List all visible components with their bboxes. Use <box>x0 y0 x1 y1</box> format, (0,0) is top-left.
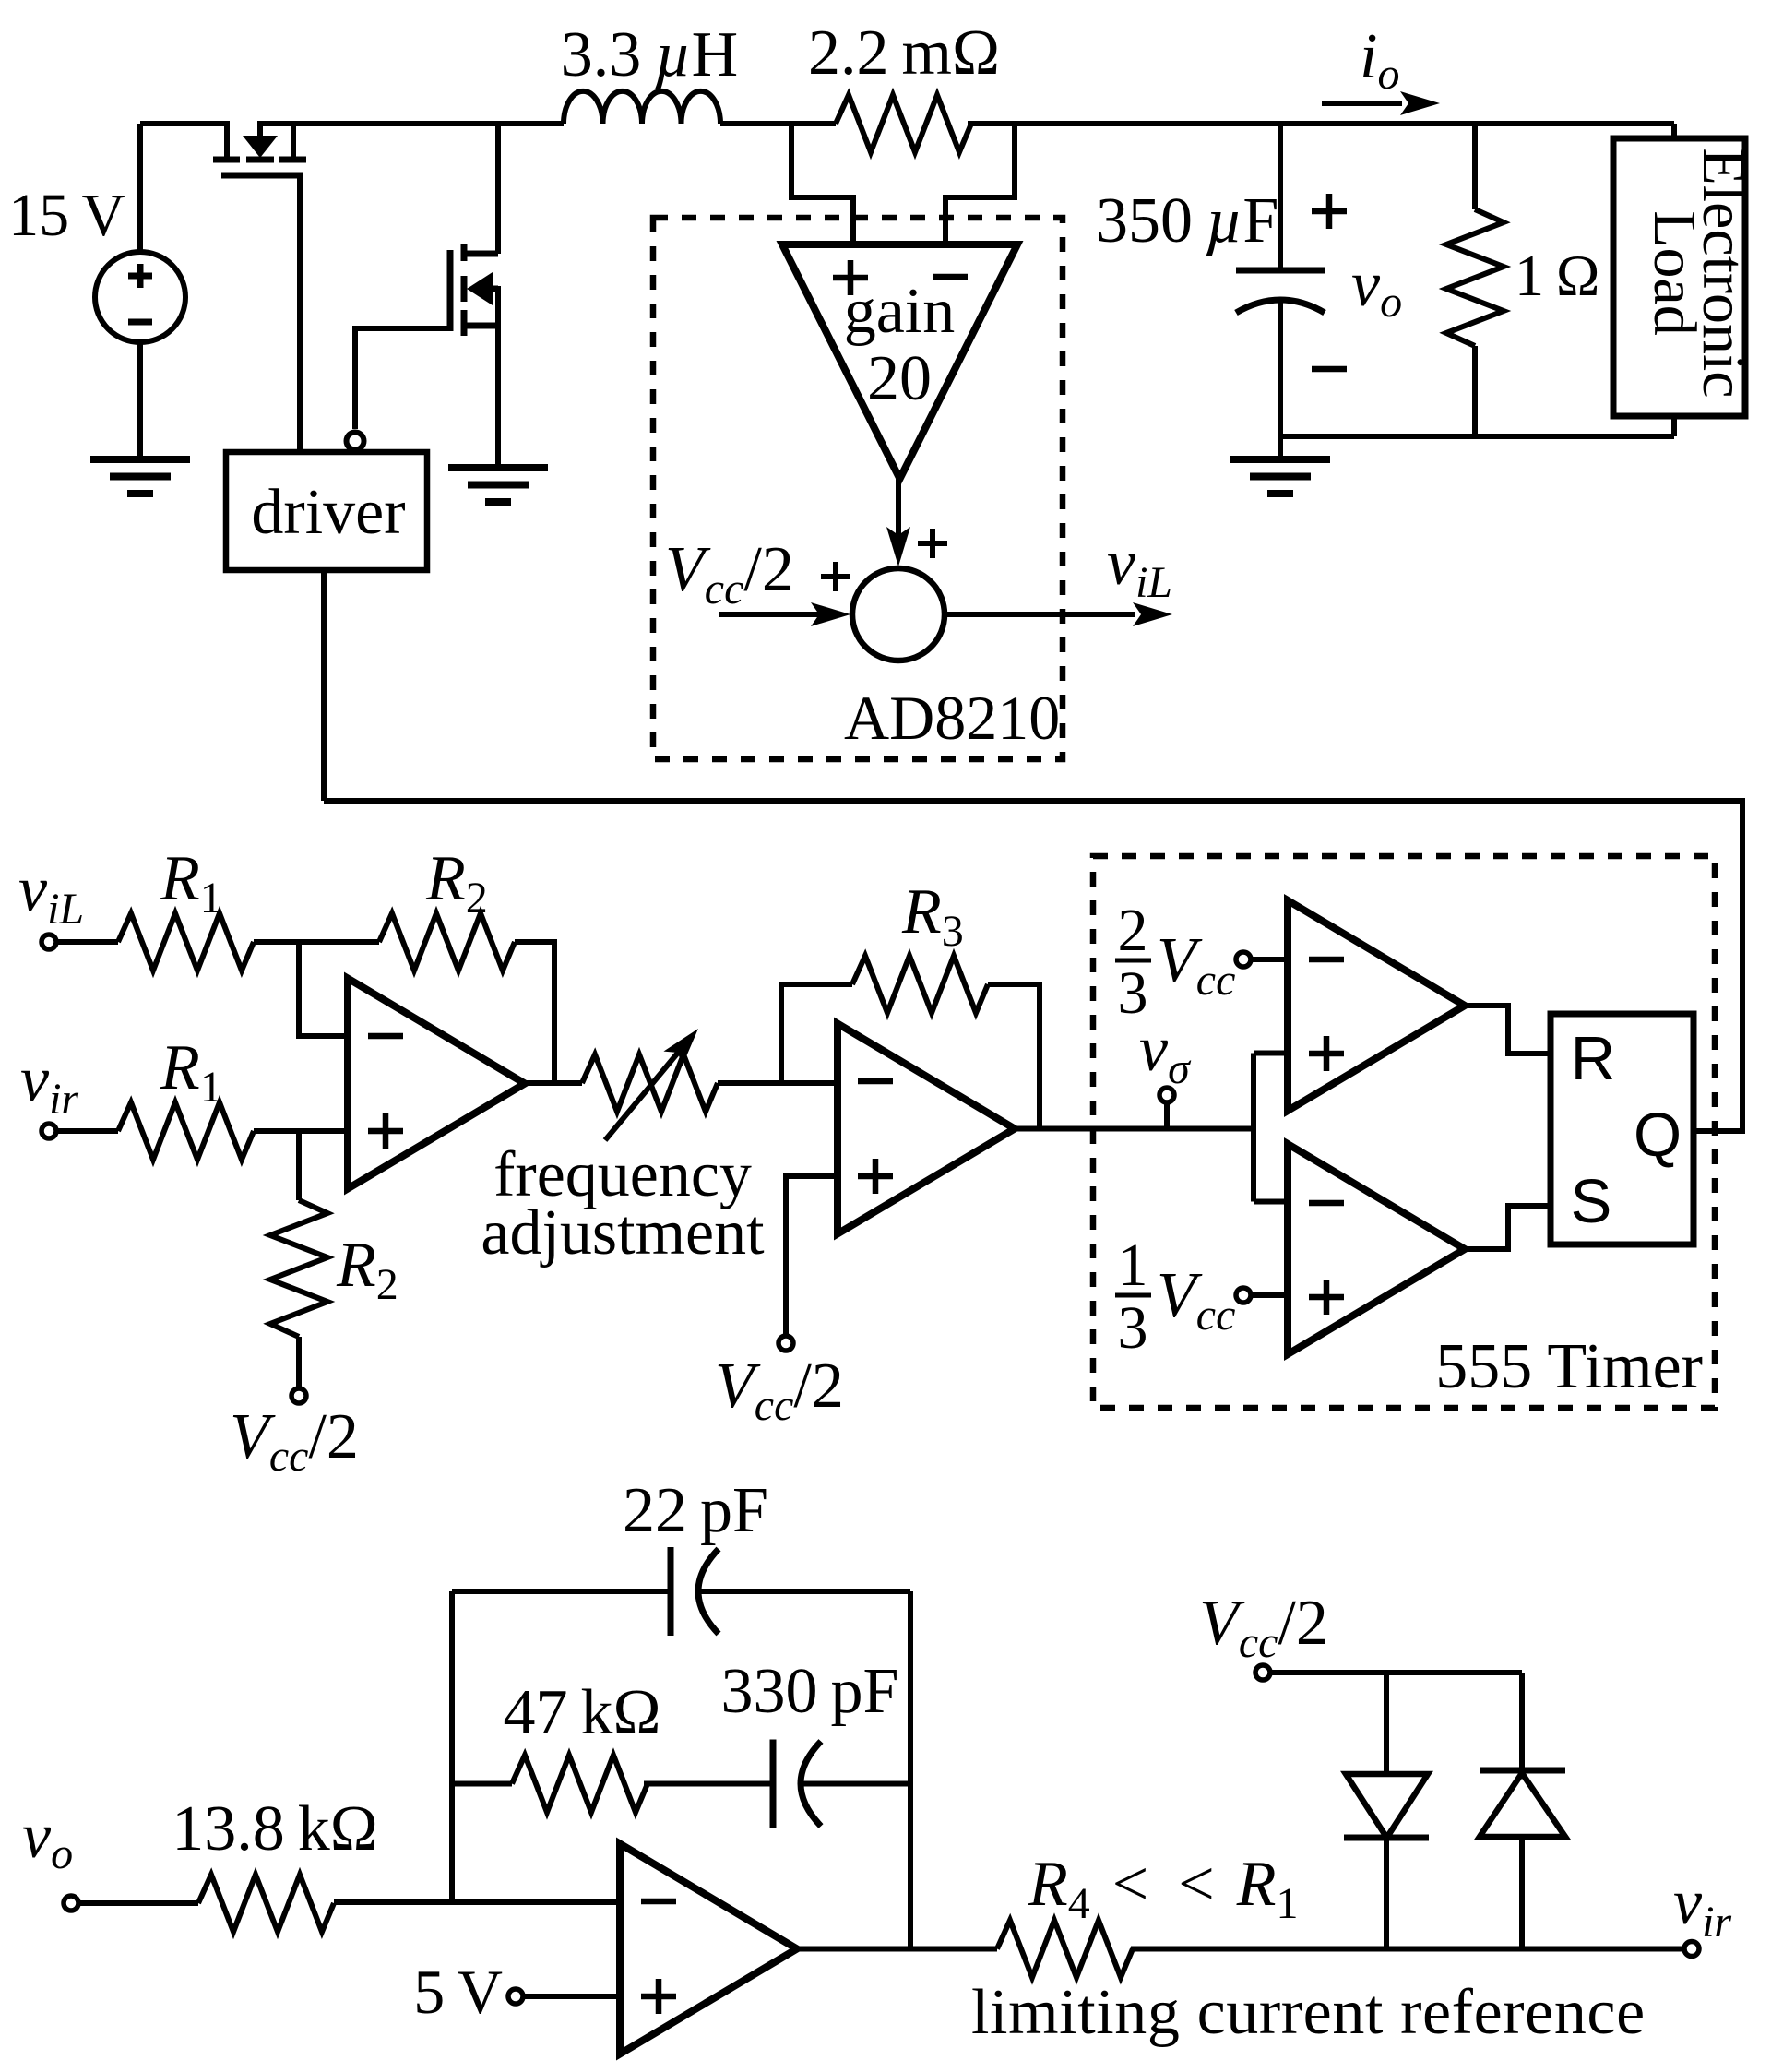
rheostat frequency adjustment <box>582 1021 718 1140</box>
ground at output <box>1230 436 1330 494</box>
wire V1 top to rail <box>137 124 143 252</box>
wire R3 to op3 output <box>988 984 1040 1128</box>
summing node circle <box>852 568 945 661</box>
label 2.2 mOhm <box>808 18 1000 89</box>
label - of U2 <box>368 1033 403 1040</box>
label Electronic (rotated) <box>1690 148 1757 398</box>
label gain <box>844 276 956 347</box>
label Vcc/2 clamp <box>1199 1588 1328 1667</box>
label 47 kOhm <box>503 1677 660 1748</box>
terminal v_ir output <box>1684 1942 1699 1957</box>
label v_iL terminal <box>18 854 84 934</box>
terminal v_iL <box>42 935 56 949</box>
label + of U5 <box>1309 1280 1344 1315</box>
label R2 (feedback) <box>425 843 488 923</box>
wire U1 output arrow into summer <box>886 479 910 566</box>
wire Q1 gate to driver <box>297 175 303 452</box>
label + input of U1 <box>833 260 868 295</box>
inductor L1 3.3uH <box>564 91 720 124</box>
wire bus to U5 minus <box>1254 1199 1288 1205</box>
label 350 uF <box>1096 185 1278 256</box>
wire top rail left segment <box>140 121 230 126</box>
label Vcc/2 for U3 <box>715 1351 844 1430</box>
label S input <box>1571 1167 1612 1236</box>
RS flip-flop box <box>1551 1014 1694 1244</box>
terminal v_ir (input) <box>42 1124 56 1138</box>
capacitor 22pF <box>671 1547 910 1636</box>
wire v_ir to R1b <box>56 1128 118 1134</box>
resistor R1 (top) <box>118 913 254 971</box>
label v_ir terminal <box>20 1044 78 1124</box>
wire V1 bottom to ground <box>137 342 143 459</box>
wire bottom rail <box>1280 434 1674 439</box>
label Load (rotated) <box>1641 210 1708 336</box>
resistor R2 feedback <box>379 913 515 971</box>
arrow i_o <box>1322 91 1440 115</box>
ground under Q2 source <box>448 468 548 502</box>
label + of v_o <box>1312 194 1347 229</box>
label - of U5 <box>1309 1200 1344 1207</box>
label 1/3 Vcc <box>1115 1232 1235 1362</box>
svg-text:13.8 kΩ: 13.8 kΩ <box>172 1793 378 1864</box>
amplifier U1 gain 20 triangle <box>782 244 1017 479</box>
label 3.3 uH <box>561 19 738 90</box>
label frequency <box>493 1139 752 1210</box>
label 1 Ohm <box>1515 243 1599 308</box>
svg-text:2.2 mΩ: 2.2 mΩ <box>808 18 1000 89</box>
label adjustment <box>481 1197 765 1268</box>
electronic load box <box>1613 138 1745 416</box>
svg-text:Q: Q <box>1634 1101 1682 1170</box>
label - of U4 <box>1309 957 1344 963</box>
label - of U6 <box>641 1899 676 1905</box>
label R1 (second) <box>160 1032 222 1112</box>
wire driver output down <box>321 570 327 801</box>
label + of U6 <box>641 1979 676 2014</box>
arrow Vcc/2 into summer <box>719 602 850 626</box>
svg-text:2: 2 <box>1118 897 1148 964</box>
label + of U4 <box>1309 1036 1344 1071</box>
label - of U3 <box>858 1078 893 1085</box>
wire node down to op1 minus <box>299 942 348 1036</box>
driver box <box>226 452 427 570</box>
label 330 pF <box>721 1656 899 1727</box>
op-amp U6 compensator <box>620 1844 797 2054</box>
wire node to R2 feedback <box>299 939 379 945</box>
resistor R1 (second) <box>118 1102 254 1160</box>
wire op3 output to comparators <box>1015 1126 1254 1132</box>
transistor Q1 PMOS high-side <box>213 121 306 175</box>
comparator U5 (lower) <box>1288 1144 1465 1354</box>
svg-text:1 Ω: 1 Ω <box>1515 243 1599 308</box>
label 555 Timer <box>1435 1331 1703 1402</box>
wire R1b to op1 plus <box>254 1128 348 1134</box>
ground under V1 <box>90 459 190 494</box>
label i_o <box>1360 21 1399 99</box>
label + of U3 <box>858 1159 893 1194</box>
label R input <box>1571 1024 1615 1093</box>
wire R2 to output corner <box>515 942 554 1083</box>
wire Vcc/2 to diodes <box>1270 1670 1522 1675</box>
wire op3 plus to Vcc/2 <box>786 1176 838 1336</box>
label limiting current reference <box>971 1977 1646 2048</box>
label v_sigma <box>1139 1014 1192 1093</box>
label driver <box>251 477 405 548</box>
wire rheostat to op3 minus <box>718 1080 838 1086</box>
label 15 V <box>8 182 125 249</box>
svg-text:AD8210: AD8210 <box>844 683 1060 753</box>
label 5 V <box>413 1957 503 2027</box>
wire R4 to v_ir <box>1131 1947 1682 1952</box>
svg-text:R: R <box>1571 1024 1615 1093</box>
label Vcc/2 under R2 <box>230 1401 359 1481</box>
wire load top <box>1671 124 1677 138</box>
wire rail sense resistor to load corner <box>968 121 1674 126</box>
label 22 pF <box>623 1475 768 1546</box>
resistor 13.8 kOhm <box>198 1875 334 1932</box>
diode D2 (up) <box>1480 1673 1565 1949</box>
wire op1 output to rheostat <box>525 1080 582 1086</box>
wire R13.8k to op4 minus <box>334 1899 620 1905</box>
resistor Rs 2.2mOhm <box>836 95 971 152</box>
svg-text:350 µF: 350 µF <box>1096 185 1278 256</box>
resistor R3 feedback <box>852 956 988 1013</box>
svg-text:adjustment: adjustment <box>481 1197 765 1268</box>
wire feedback node up <box>449 1591 455 1902</box>
svg-text:20: 20 <box>867 343 932 414</box>
wire load bottom <box>1671 416 1677 436</box>
wire junction up to R3 <box>781 984 852 1083</box>
label - input of U1 <box>933 274 968 280</box>
label + at summer left input <box>821 562 850 591</box>
svg-text:3: 3 <box>1118 1294 1148 1362</box>
node v_sigma <box>1159 1088 1174 1128</box>
svg-text:S: S <box>1571 1167 1612 1236</box>
driver inverting bubble <box>347 433 364 450</box>
capacitor C1 350uF <box>1236 124 1325 436</box>
terminal 5V <box>508 1989 620 2004</box>
svg-text:1: 1 <box>1118 1232 1148 1299</box>
wire summer output with arrow <box>945 602 1172 626</box>
label Q output <box>1634 1101 1682 1170</box>
svg-text:3.3 µH: 3.3 µH <box>561 19 738 90</box>
resistor 47 kOhm <box>512 1756 648 1813</box>
label + at summer top input <box>918 529 947 558</box>
wire Q feedback to driver <box>324 801 1742 1131</box>
capacitor 330pF <box>773 1740 910 1828</box>
wire U6 output <box>797 1947 997 1952</box>
label R2 (vertical) <box>336 1230 398 1309</box>
AD8210 dashed box <box>653 218 1063 759</box>
wire rail inductor to sense resistor <box>720 121 836 126</box>
comparator U4 (upper) <box>1288 900 1465 1111</box>
wire v_o to R 13.8k <box>78 1900 198 1906</box>
wire sense tap right <box>945 124 1015 244</box>
input bus vertical <box>1251 1054 1256 1202</box>
label R3 <box>901 876 964 956</box>
svg-text:Load: Load <box>1641 210 1708 336</box>
wire sense tap left <box>791 124 853 244</box>
svg-text:limiting current reference: limiting current reference <box>971 1977 1646 2048</box>
555 Timer dashed box <box>1093 856 1715 1408</box>
svg-text:47 kΩ: 47 kΩ <box>503 1677 660 1748</box>
label 2/3 Vcc <box>1115 897 1235 1027</box>
svg-text:driver: driver <box>251 477 405 548</box>
terminal Vcc/2 clamp <box>1255 1665 1270 1680</box>
label AD8210 <box>844 683 1060 753</box>
svg-text:gain: gain <box>844 276 956 347</box>
svg-text:330 pF: 330 pF <box>721 1656 899 1727</box>
label R1 (top) <box>160 843 222 923</box>
label - of v_o <box>1312 366 1347 373</box>
terminal v_o input <box>64 1896 78 1911</box>
resistor R4 <box>997 1921 1133 1978</box>
terminal 2/3 Vcc <box>1236 952 1288 967</box>
terminal Vcc/2 under R2 <box>291 1388 306 1403</box>
wire top rail from PMOS to inductor <box>257 121 564 126</box>
wire U4 output to R <box>1465 1006 1551 1054</box>
wire bus to U4 plus <box>1254 1051 1288 1056</box>
label v_o at capacitor <box>1351 249 1402 327</box>
wire R1 to inverting node <box>254 939 299 945</box>
label v_ir output <box>1673 1867 1731 1947</box>
op-amp U3 inverting <box>838 1024 1015 1234</box>
label 13.8 kOhm <box>172 1793 378 1864</box>
label + of U2 <box>368 1113 403 1149</box>
op-amp U2 difference amplifier <box>348 979 525 1189</box>
resistor R2 to Vcc/2 (vertical) <box>270 1131 327 1388</box>
voltage source V1 15V: circle <box>95 252 185 342</box>
resistor Rload 1Ohm <box>1446 124 1504 436</box>
wire right loop vertical <box>908 1591 913 1949</box>
wire v_iL to R1 <box>56 939 118 945</box>
svg-text:15 V: 15 V <box>8 182 125 249</box>
terminal 1/3 Vcc <box>1236 1288 1288 1303</box>
wire top loop left to 22pF <box>452 1589 671 1594</box>
label v_iL at summer output <box>1107 528 1172 607</box>
diode D1 (down) <box>1344 1673 1429 1949</box>
svg-text:3: 3 <box>1118 959 1148 1027</box>
wire 47k to 330pF <box>644 1781 773 1787</box>
svg-text:22 pF: 22 pF <box>623 1475 768 1546</box>
label 20 <box>867 343 932 414</box>
svg-text:555 Timer: 555 Timer <box>1435 1331 1703 1402</box>
terminal Vcc/2 for U3 <box>779 1336 793 1351</box>
svg-text:5 V: 5 V <box>413 1957 503 2027</box>
label Vcc/2 at summer <box>665 534 794 613</box>
label v_o input <box>22 1801 73 1878</box>
label R4 << R1 <box>1028 1849 1299 1928</box>
transistor Q2 NMOS low-side <box>450 124 498 468</box>
wire U5 output to S <box>1465 1206 1551 1249</box>
wire Q2 gate to driver bubble <box>355 328 450 429</box>
wire mid branch from node <box>452 1781 512 1787</box>
